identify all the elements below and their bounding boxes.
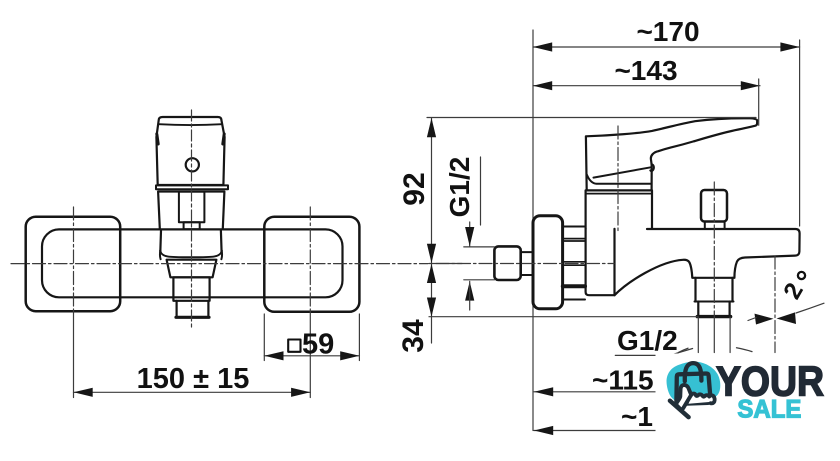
- left view: escutcheon rim wave: [160, 251, 222, 258]
- svg-text:G1/2: G1/2: [617, 325, 678, 356]
- dim square59: extension line left: [263, 314, 265, 361]
- right view: diverter axis centerline: [713, 182, 715, 317]
- dim ~170: dimension line: [533, 46, 800, 48]
- dim 2deg: dash-dot reference line: [774, 256, 776, 353]
- right view: hex adapter: [494, 246, 520, 280]
- svg-text:~115: ~115: [592, 365, 654, 396]
- right view: inlet axis centerline: [436, 263, 614, 265]
- dim ~115: left arrowhead: [534, 387, 553, 396]
- left view: spout lower rect bottom edge: [176, 316, 209, 319]
- dim 2deg: left arrowhead: [755, 314, 774, 325]
- left view: escutcheon rim right curl: [220, 251, 223, 260]
- left view: handle knob outline: [156, 117, 224, 185]
- logo: teal blob: [667, 362, 721, 403]
- svg-text:~170: ~170: [636, 16, 699, 47]
- right view: outlet bottom extension line: [429, 316, 698, 318]
- left view: escutcheon rim left curl: [159, 251, 162, 260]
- right view: wall flange disc: [533, 216, 563, 309]
- right view: centerline stub at 92: [429, 263, 462, 265]
- dim ~1: dimension line: [534, 430, 656, 432]
- right view: diverter knob base: [705, 222, 725, 229]
- right view: outlet thread bottom edge: [697, 315, 730, 318]
- left view: cartridge cover: [158, 192, 224, 229]
- right view: outlet extension line right: [729, 317, 731, 353]
- dim G1/2 left: lower arrowhead: [465, 281, 474, 300]
- dim ~143: left arrowhead: [533, 81, 552, 90]
- left view: handle base band: [156, 185, 228, 189]
- left view: handle knob side bend right: [223, 134, 224, 144]
- dim 2deg: arc right: [796, 303, 824, 313]
- right view: outlet pipe upper: [696, 278, 733, 302]
- svg-text:150 ± 15: 150 ± 15: [137, 363, 250, 395]
- dim G1/2 left: upper arrowhead: [465, 227, 474, 246]
- dim ~170: right arrowhead: [780, 42, 799, 51]
- dim G1/2 bottom: leader: [669, 349, 692, 356]
- left view: handle screw circle: [186, 158, 199, 171]
- left view: spout lower rect: [177, 301, 209, 317]
- logo white background box: [656, 354, 840, 461]
- dim ~115: dimension line: [534, 391, 656, 393]
- dim 92: dimension line: [431, 118, 433, 263]
- left view: handle knob cap line: [159, 123, 222, 126]
- left view: right plate vertical centerline: [309, 207, 311, 311]
- right view: outlet extension line left: [697, 317, 699, 353]
- left view: escutcheon cone sides: [160, 231, 221, 253]
- logo: hand knuckles: [691, 394, 714, 404]
- left view: right wall plate: [264, 217, 359, 312]
- dim G1/2 left: extension line bottom: [464, 279, 495, 281]
- dim ~143: right arrowhead: [741, 81, 760, 90]
- right view: cartridge axis centerline: [617, 126, 619, 232]
- dim G1/2 left: dimension line lower: [469, 281, 471, 310]
- right view: outlet thread: [698, 302, 729, 316]
- svg-text:2: 2: [779, 279, 809, 304]
- svg-text:~1: ~1: [621, 401, 653, 432]
- left view: handle vertical dashed centerline: [191, 110, 193, 329]
- right view: thread nipple band 2: [563, 262, 585, 265]
- right view: handle top extension line: [427, 117, 756, 119]
- dim 34: dimension line: [431, 264, 433, 343]
- logo: hand pointer white fill: [689, 395, 716, 404]
- dim ~1: left arrowhead: [534, 426, 553, 435]
- right view: handle chin ear: [650, 164, 654, 171]
- dim 2deg: degree ring: [798, 272, 805, 279]
- svg-text:G1/2: G1/2: [444, 157, 475, 218]
- right view: outlet pipe upper bottom line: [695, 301, 734, 303]
- right view: outlet extension line center: [713, 317, 715, 353]
- left view: cartridge small rect: [184, 222, 200, 229]
- right view: wall extension line: [532, 30, 534, 431]
- left view: horizontal body bar: [42, 229, 343, 297]
- dim G1/2 bottom: underline: [615, 354, 669, 356]
- dim G1/2 left: underline: [480, 157, 482, 225]
- dim 34: bottom arrowhead: [427, 298, 436, 317]
- svg-text:92: 92: [398, 172, 431, 205]
- left view: left plate centerline extension: [73, 311, 75, 398]
- right view: lower arc fragment right: [737, 348, 753, 352]
- dim ~143: dimension line: [533, 85, 760, 87]
- logo: bag handle: [685, 363, 702, 381]
- dim 2deg: right arrowhead: [777, 312, 797, 324]
- right view: handle lever outline: [586, 118, 757, 190]
- right view: cartridge cover inner top line: [586, 193, 652, 195]
- logo: hand pointer finger and thumb: [676, 385, 691, 409]
- dim square59: right arrowhead: [340, 351, 359, 360]
- dim square59: left arrowhead: [264, 351, 283, 360]
- right view: cartridge cover: [586, 190, 652, 228]
- dim G1/2 left: extension line top: [464, 246, 495, 248]
- right view: lower body block: [586, 229, 615, 295]
- right view: spout slab outline: [615, 229, 800, 295]
- svg-text:SALE: SALE: [737, 396, 801, 424]
- dim ~170: left arrowhead: [533, 42, 552, 51]
- svg-text:~143: ~143: [614, 55, 677, 86]
- right view: thread nipple band 3: [563, 284, 585, 288]
- left view: spout trapezoid: [167, 260, 217, 278]
- dim ~170: right extension line: [799, 40, 801, 226]
- right view: thread nipple band 1: [563, 239, 585, 241]
- logo: hand sleeve stroke: [670, 401, 689, 418]
- dim 92: bottom arrowhead: [427, 244, 436, 263]
- left view: spout middle rect: [173, 277, 209, 301]
- right view: diverter knob: [701, 190, 727, 222]
- logo: bag body: [676, 374, 710, 404]
- dim 150±15: left arrowhead: [74, 388, 93, 397]
- left view: handle knob side bend left: [157, 134, 158, 144]
- left view: left wall plate: [26, 217, 121, 312]
- dim 34: top arrowhead: [427, 264, 436, 283]
- dim square59: dimension line: [264, 355, 359, 357]
- left view: right plate centerline extension: [309, 311, 311, 398]
- dim square59: square symbol: [288, 340, 300, 352]
- left view: horizontal dash-dot centerline: [11, 263, 428, 265]
- right view: adapter neck: [521, 252, 533, 275]
- left view: cartridge neck rect: [179, 192, 205, 223]
- dim 2deg: left arrow tail tick: [748, 318, 756, 321]
- right view: handle skirt upper line: [594, 167, 652, 177]
- dim 150±15: dimension line: [74, 391, 311, 393]
- right view: lower arc fragment left: [679, 348, 689, 352]
- dim 150±15: right arrowhead: [291, 388, 310, 397]
- dim ~143: right extension line: [758, 79, 760, 125]
- left view: left plate vertical centerline: [73, 207, 75, 311]
- dim G1/2 left: dimension line upper: [469, 222, 471, 246]
- right view: thread nipple outline: [563, 227, 585, 300]
- dim 92: top arrowhead: [427, 118, 436, 137]
- dim square59: extension line right: [358, 314, 360, 361]
- right view: handle skirt lower line: [587, 174, 652, 183]
- svg-text:34: 34: [397, 319, 430, 353]
- svg-text:59: 59: [302, 328, 334, 360]
